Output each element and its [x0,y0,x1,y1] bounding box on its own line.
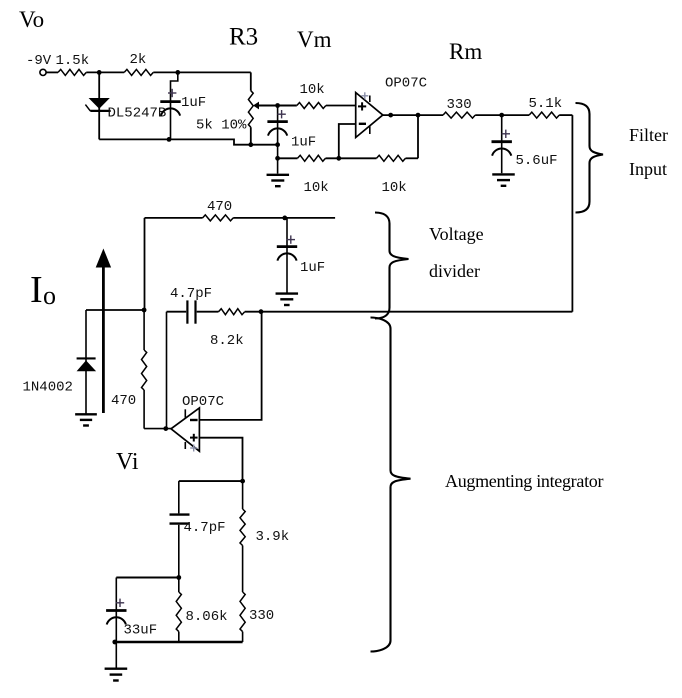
capacitor C4 5.6uF [492,130,558,169]
svg-text:OP07C: OP07C [182,394,224,410]
wire op2 minus input [199,312,261,420]
svg-text:1uF: 1uF [300,260,325,276]
node junction C1 bottom [167,137,172,142]
svg-text:Vi: Vi [116,449,139,475]
wire output rail [383,114,573,116]
op-amp U1 OP07C [356,76,427,138]
resistor R 8.2k [210,309,245,349]
resistor R 470 integrator [111,350,147,409]
resistor R 10k plus-input [297,82,326,109]
capacitor C2 1uF [267,110,316,151]
svg-text:2k: 2k [130,52,147,68]
svg-text:470: 470 [111,393,136,409]
svg-text:8.2k: 8.2k [210,333,244,349]
node junction divider [282,216,287,221]
svg-text:DL5247B: DL5247B [108,106,167,122]
svg-text:Input: Input [629,159,667,179]
pot wiper arrow [253,102,297,110]
svg-text:Voltage: Voltage [429,224,484,244]
wire long feedback horizontal [261,311,572,313]
node junction 2k-right [175,70,180,75]
svg-text:330: 330 [249,608,274,624]
node junction output-fb [416,113,421,118]
wire top rail [46,71,251,73]
zener diode DL5247B [85,98,166,122]
resistor R 1.5k [56,53,90,75]
node junction fb bottom-left [275,156,280,161]
resistor R 2k [124,52,153,75]
svg-text:4.7pF: 4.7pF [170,286,212,302]
ground G4 [492,174,515,185]
annotation Voltage divider [429,224,484,281]
resistor R 10k ground-leg [298,155,329,196]
wire 470 vertical branch [144,310,171,429]
wire C2 branch [277,106,279,174]
node junction bottom ground [112,640,117,645]
wire zener branch [98,72,100,139]
svg-text:1uF: 1uF [181,95,206,111]
wire C5 branch [286,218,288,293]
ground G3 [276,294,299,305]
svg-text:Augmenting integrator: Augmenting integrator [445,471,603,491]
ground G5 [105,669,128,681]
wire fb2 vertical [166,312,168,429]
capacitor C5 1uF divider [277,235,325,276]
wire pot top [250,72,252,90]
wire bottom rail [114,641,242,643]
wire minus input [339,124,356,158]
svg-text:33uF: 33uF [124,623,158,639]
annotation Filter Input [629,125,668,179]
svg-text:OP07C: OP07C [385,76,427,92]
node junction wiper [275,103,280,108]
node label Io [30,269,56,311]
node junction 33uF top [176,575,181,580]
node junction output [388,113,393,118]
capacitor C6 4.7pF [170,286,212,324]
svg-text:o: o [43,281,56,310]
wire fb2 horizontal [167,311,262,313]
node junction top-left [97,70,102,75]
node junction C2 bottom [275,142,280,147]
node junction bottom top [240,479,245,484]
svg-text:10k: 10k [304,180,329,196]
svg-text:10k: 10k [382,180,407,196]
svg-text:1.5k: 1.5k [56,53,90,69]
wire zener bottom rail [99,139,277,144]
wire diode branch [85,310,87,414]
svg-text:8.06k: 8.06k [186,609,228,625]
svg-text:5k 10%: 5k 10% [196,118,247,134]
wire pot bottom [250,127,252,145]
resistor R 5.1k [529,96,563,118]
wire divider top [145,217,336,219]
resistor R3 pot 5k [196,91,253,134]
node junction Io [142,308,147,313]
wire bottom top rail [179,480,243,482]
wire C4 branch [501,115,503,173]
terminal -9V input [26,53,52,76]
wire left bottom vertical [178,481,180,642]
node junction 5.6uF [499,113,504,118]
svg-text:4.7pF: 4.7pF [184,520,226,536]
wire to plus input [326,105,356,107]
svg-text:1uF: 1uF [291,135,316,151]
wire 33uF branch [116,577,179,579]
svg-text:-9V: -9V [26,53,52,69]
capacitor C7 4.7pF [170,515,226,536]
resistor R 330 [443,97,475,118]
ground G1 [75,414,97,425]
op-amp U2 OP07C [171,394,224,452]
diode D2 1N4002 [23,358,97,395]
svg-text:Vo: Vo [19,7,44,32]
node junction pot bottom [248,142,253,147]
wire Io node [86,309,144,311]
Io arrow [96,249,111,414]
svg-text:1N4002: 1N4002 [23,380,73,396]
wire filter right vertical [571,115,573,312]
capacitor C1 1uF [160,89,206,116]
svg-text:5.1k: 5.1k [529,96,563,112]
resistor R 330 integrator [240,592,274,632]
svg-text:470: 470 [207,199,232,215]
svg-text:5.6uF: 5.6uF [516,153,558,169]
svg-text:3.9k: 3.9k [256,529,290,545]
resistor R 470 divider [203,199,234,221]
wire right bottom vertical [242,481,244,642]
brace Voltage divider [375,213,409,319]
node junction op2 input [163,426,168,431]
svg-text:330: 330 [447,97,472,113]
node junction fb2 right [259,309,264,314]
svg-text:I: I [30,269,43,311]
svg-text:Filter: Filter [629,125,668,145]
svg-text:Rm: Rm [449,39,482,64]
resistor R 3.9k [240,509,289,546]
ground G2 [267,175,290,186]
capacitor C8 33uF [106,599,157,639]
wire op2 plus input [199,438,242,481]
brace Filter Input [576,103,604,213]
node junction fb mid [336,156,341,161]
svg-text:divider: divider [429,261,480,281]
wire fb bottom rail [278,157,418,159]
resistor R 10k feedback [377,155,407,196]
resistor R 8.06k [176,592,227,632]
wire divider left vertical [144,218,146,310]
svg-text:R3: R3 [229,24,258,51]
svg-text:10k: 10k [300,82,325,98]
wire fb to output [417,115,419,158]
wire 33uF vertical [115,578,117,668]
svg-text:Vm: Vm [297,27,332,52]
brace Augmenting integrator [371,318,411,652]
wire C1 branch [171,72,178,139]
